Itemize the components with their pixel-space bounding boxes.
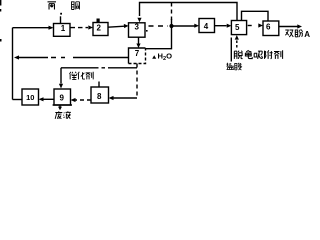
svg-text:4: 4	[204, 22, 209, 31]
wire vertical from box3 bottom to box7	[138, 37, 140, 44]
label waste ye	[63, 111, 70, 119]
label acetone char bing	[48, 2, 57, 10]
box 4	[199, 19, 215, 33]
label output fen	[295, 30, 303, 38]
svg-text:A: A	[304, 30, 310, 39]
box 5	[231, 21, 246, 35]
arrowhead into box 3	[124, 24, 129, 28]
wire box6 to output	[279, 26, 298, 28]
arrowhead into box 6	[258, 23, 263, 27]
wire box4 to box5	[215, 25, 227, 27]
wire box9 to box10	[44, 98, 55, 100]
wire catalyst down to box9	[60, 68, 62, 84]
label catalyst cui	[69, 72, 76, 80]
box 6	[263, 21, 279, 36]
svg-text:H2O: H2O	[158, 52, 173, 62]
arrowhead into box 5	[227, 24, 232, 28]
box 2	[93, 23, 108, 36]
wire into box 1	[13, 27, 49, 29]
wire bracket box5 top to box6 top	[242, 11, 269, 21]
wire feed tick above box 1	[60, 16, 62, 23]
arrowhead adsorbent into box 5 bottom	[235, 35, 239, 40]
svg-text:3: 3	[134, 23, 139, 32]
wire dash-dot catalyst vertical below box7	[136, 64, 138, 99]
label acetone char tong	[71, 2, 80, 10]
arrowhead recycle pointing left	[14, 55, 19, 59]
speck top-left corner	[0, 0, 1, 6]
speck left edge upper	[0, 9, 1, 12]
wire dashed box8 to box9	[75, 99, 92, 101]
svg-text:9: 9	[59, 93, 64, 102]
wire dashed box3 to node	[149, 25, 169, 27]
wire dashed adsorbent into box5 bottom	[236, 39, 238, 48]
wire waste stub below box9	[59, 105, 61, 107]
label adsorbent xi	[254, 51, 262, 59]
wire node down to box7 right	[146, 26, 172, 49]
arrowhead catalyst into box 9 top	[59, 84, 63, 89]
label HCl suan	[234, 63, 241, 70]
wire catalyst into box8	[113, 97, 137, 99]
arrowhead into box 8 right	[109, 96, 114, 100]
box 10	[22, 89, 39, 105]
wire recycle from box 7 left	[73, 57, 129, 59]
wire left recycle vertical	[12, 28, 14, 100]
box 7 (dashed right and bottom edges)	[129, 48, 146, 64]
wire catalyst horizontal	[61, 67, 95, 69]
arrowhead into box 4	[194, 24, 199, 28]
box 1	[54, 24, 71, 37]
arrowhead H2O	[152, 55, 156, 59]
svg-text:5: 5	[235, 23, 240, 32]
arrowhead into box 9 right	[71, 98, 76, 102]
label waste fei	[55, 111, 62, 119]
box 8	[91, 87, 109, 103]
arrowhead output bisphenol A	[297, 24, 302, 28]
svg-text:6: 6	[266, 23, 271, 32]
tick square above box 2	[97, 19, 100, 23]
node junction dot	[169, 24, 173, 28]
svg-text:2: 2	[96, 24, 101, 33]
wire left bottom to box 10	[13, 99, 23, 101]
label catalyst hua	[78, 72, 85, 80]
arrowhead waste down	[58, 107, 62, 111]
wire dashed box5 to box6	[248, 25, 253, 27]
svg-text:10: 10	[26, 93, 34, 102]
wire dash-dot vertical above node	[171, 3, 173, 21]
label output shuang	[285, 30, 293, 37]
box 9	[54, 89, 71, 105]
label catalyst ji	[86, 72, 94, 80]
arrowhead into box 1	[49, 26, 54, 30]
box9 bottom overshoot	[53, 104, 72, 106]
svg-text:1: 1	[61, 24, 66, 33]
wire dashed box1 to box2	[71, 27, 89, 29]
svg-text:7: 7	[135, 49, 140, 58]
label adsorbent ji2	[274, 50, 283, 59]
speck near box3 corner	[146, 30, 148, 32]
arrowhead into box 3 top	[137, 18, 141, 23]
wire node to box4	[173, 25, 195, 27]
dot above feed tick	[60, 13, 62, 15]
label adsorbent se	[245, 50, 252, 58]
label adsorbent fu	[265, 50, 273, 59]
wire HCl line below box5	[230, 38, 232, 62]
label HCl yan	[227, 63, 234, 70]
svg-text:8: 8	[97, 92, 102, 101]
box 3	[129, 23, 146, 37]
arrowhead into box 10 right	[39, 97, 44, 101]
arrowhead into box 7 top	[136, 44, 140, 49]
wire top recycle line to box5 top	[140, 3, 238, 21]
speck left edge	[0, 39, 2, 42]
label adsorbent tuo	[234, 51, 242, 59]
wire box2 to box3	[108, 26, 125, 27]
arrowhead into box 2	[88, 25, 93, 29]
wire tick above box8	[98, 82, 100, 87]
